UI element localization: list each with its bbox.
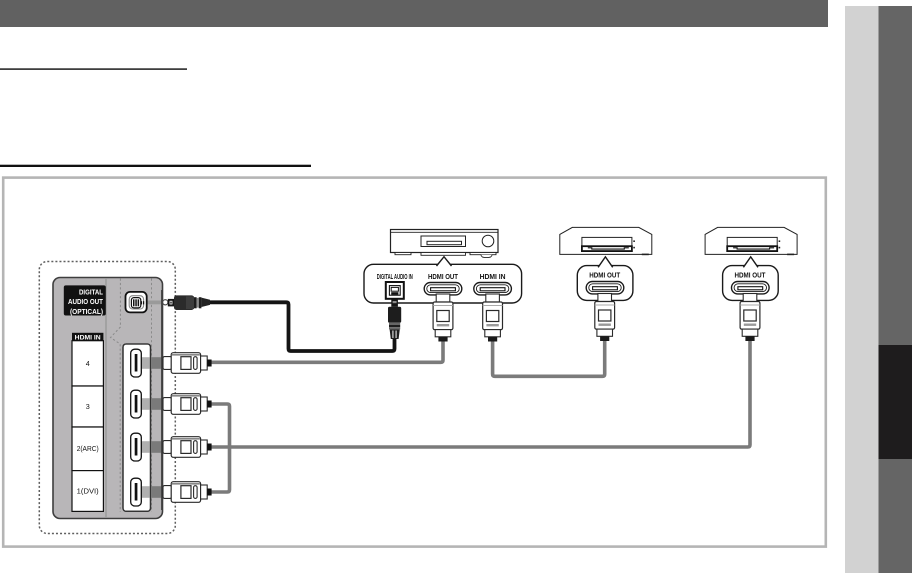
svg-text:AUDIO OUT: AUDIO OUT xyxy=(68,299,104,306)
player HDMI IN receptacle xyxy=(474,283,512,295)
TV HDMI port 3 xyxy=(131,390,142,418)
device 2 bubble xyxy=(577,257,633,301)
diagram frame box xyxy=(3,178,826,547)
TV optical port stub xyxy=(146,301,166,305)
HDMI cable player HDMI OUT to TV port4 xyxy=(208,339,443,362)
panel dashed detail line left xyxy=(111,279,121,513)
right sidebar light strip xyxy=(845,6,879,573)
TV HDMI port 2 xyxy=(131,433,142,461)
svg-text:HDMI OUT: HDMI OUT xyxy=(428,274,459,281)
TV rear panel xyxy=(53,278,163,519)
TV HDMI port 1 xyxy=(131,478,142,506)
svg-text:HDMI OUT: HDMI OUT xyxy=(589,272,621,279)
right sidebar dark strip xyxy=(879,6,912,573)
TV dashed outline box xyxy=(39,262,175,534)
top header bar xyxy=(0,0,828,27)
TV optical port xyxy=(126,292,147,313)
HDMI IN cell 3 xyxy=(72,386,103,427)
DIGITAL AUDIO OUT (OPTICAL) label xyxy=(64,285,106,315)
device 2 body xyxy=(560,227,652,254)
TV HDMI plug port4 xyxy=(163,353,212,374)
player HDMI OUT plug xyxy=(433,294,453,342)
heading rule 2 xyxy=(0,165,311,167)
TV HDMI plug port2 xyxy=(163,437,212,458)
DVD player device xyxy=(391,230,499,258)
player HDMI IN plug xyxy=(483,294,503,342)
svg-text:(OPTICAL): (OPTICAL) xyxy=(70,309,103,316)
svg-text:DIGITAL: DIGITAL xyxy=(79,290,104,297)
player HDMI OUT receptacle xyxy=(424,283,462,295)
svg-text:DIGITAL AUDIO IN: DIGITAL AUDIO IN xyxy=(377,274,413,281)
right sidebar black tab xyxy=(879,345,912,459)
device 3 body xyxy=(705,227,797,254)
svg-text:4: 4 xyxy=(86,359,90,368)
optical cable TV to player xyxy=(208,302,395,351)
HDMI cable device3 long run to TV port2 xyxy=(208,338,750,447)
svg-text:2(ARC): 2(ARC) xyxy=(77,444,99,453)
panel dashed detail line right xyxy=(151,279,153,513)
TV HDMI port 4 xyxy=(131,349,142,377)
TV HDMI port stubs light part xyxy=(136,357,150,498)
device 2 receptacle xyxy=(586,282,624,294)
panel divider line xyxy=(105,278,107,518)
TV HDMI ports box xyxy=(123,344,151,511)
player optical plug xyxy=(388,299,401,339)
HDMI IN cell 2(ARC) xyxy=(72,427,103,471)
TV HDMI port stubs dark part xyxy=(151,357,166,498)
device 3 HDMI plug xyxy=(740,294,760,342)
optical plug at TV xyxy=(163,295,210,310)
svg-text:HDMI IN: HDMI IN xyxy=(480,274,506,281)
HDMI IN header xyxy=(72,333,103,342)
svg-text:3: 3 xyxy=(86,402,90,411)
HDMI IN cell 1(DVI) xyxy=(72,471,103,512)
TV HDMI ports box border redraw xyxy=(123,344,151,511)
TV HDMI plug port3 xyxy=(163,394,212,415)
svg-text:1(DVI): 1(DVI) xyxy=(77,486,99,495)
HDMI IN cell 4 xyxy=(72,341,103,386)
TV HDMI plug port1 xyxy=(163,482,212,503)
heading rule 1 xyxy=(0,68,187,70)
device 2 HDMI plug xyxy=(595,294,615,342)
svg-text:HDMI OUT: HDMI OUT xyxy=(735,272,767,279)
panel right border redraw over stubs xyxy=(161,290,163,510)
device 3 bubble xyxy=(723,257,779,301)
player callout bubble xyxy=(364,257,522,303)
HDMI cable device2 to player HDMI IN xyxy=(493,338,605,376)
player optical port xyxy=(386,282,404,299)
device 3 receptacle xyxy=(732,282,770,294)
cable bracket vertical joining ports 3 and 1 xyxy=(208,404,230,492)
